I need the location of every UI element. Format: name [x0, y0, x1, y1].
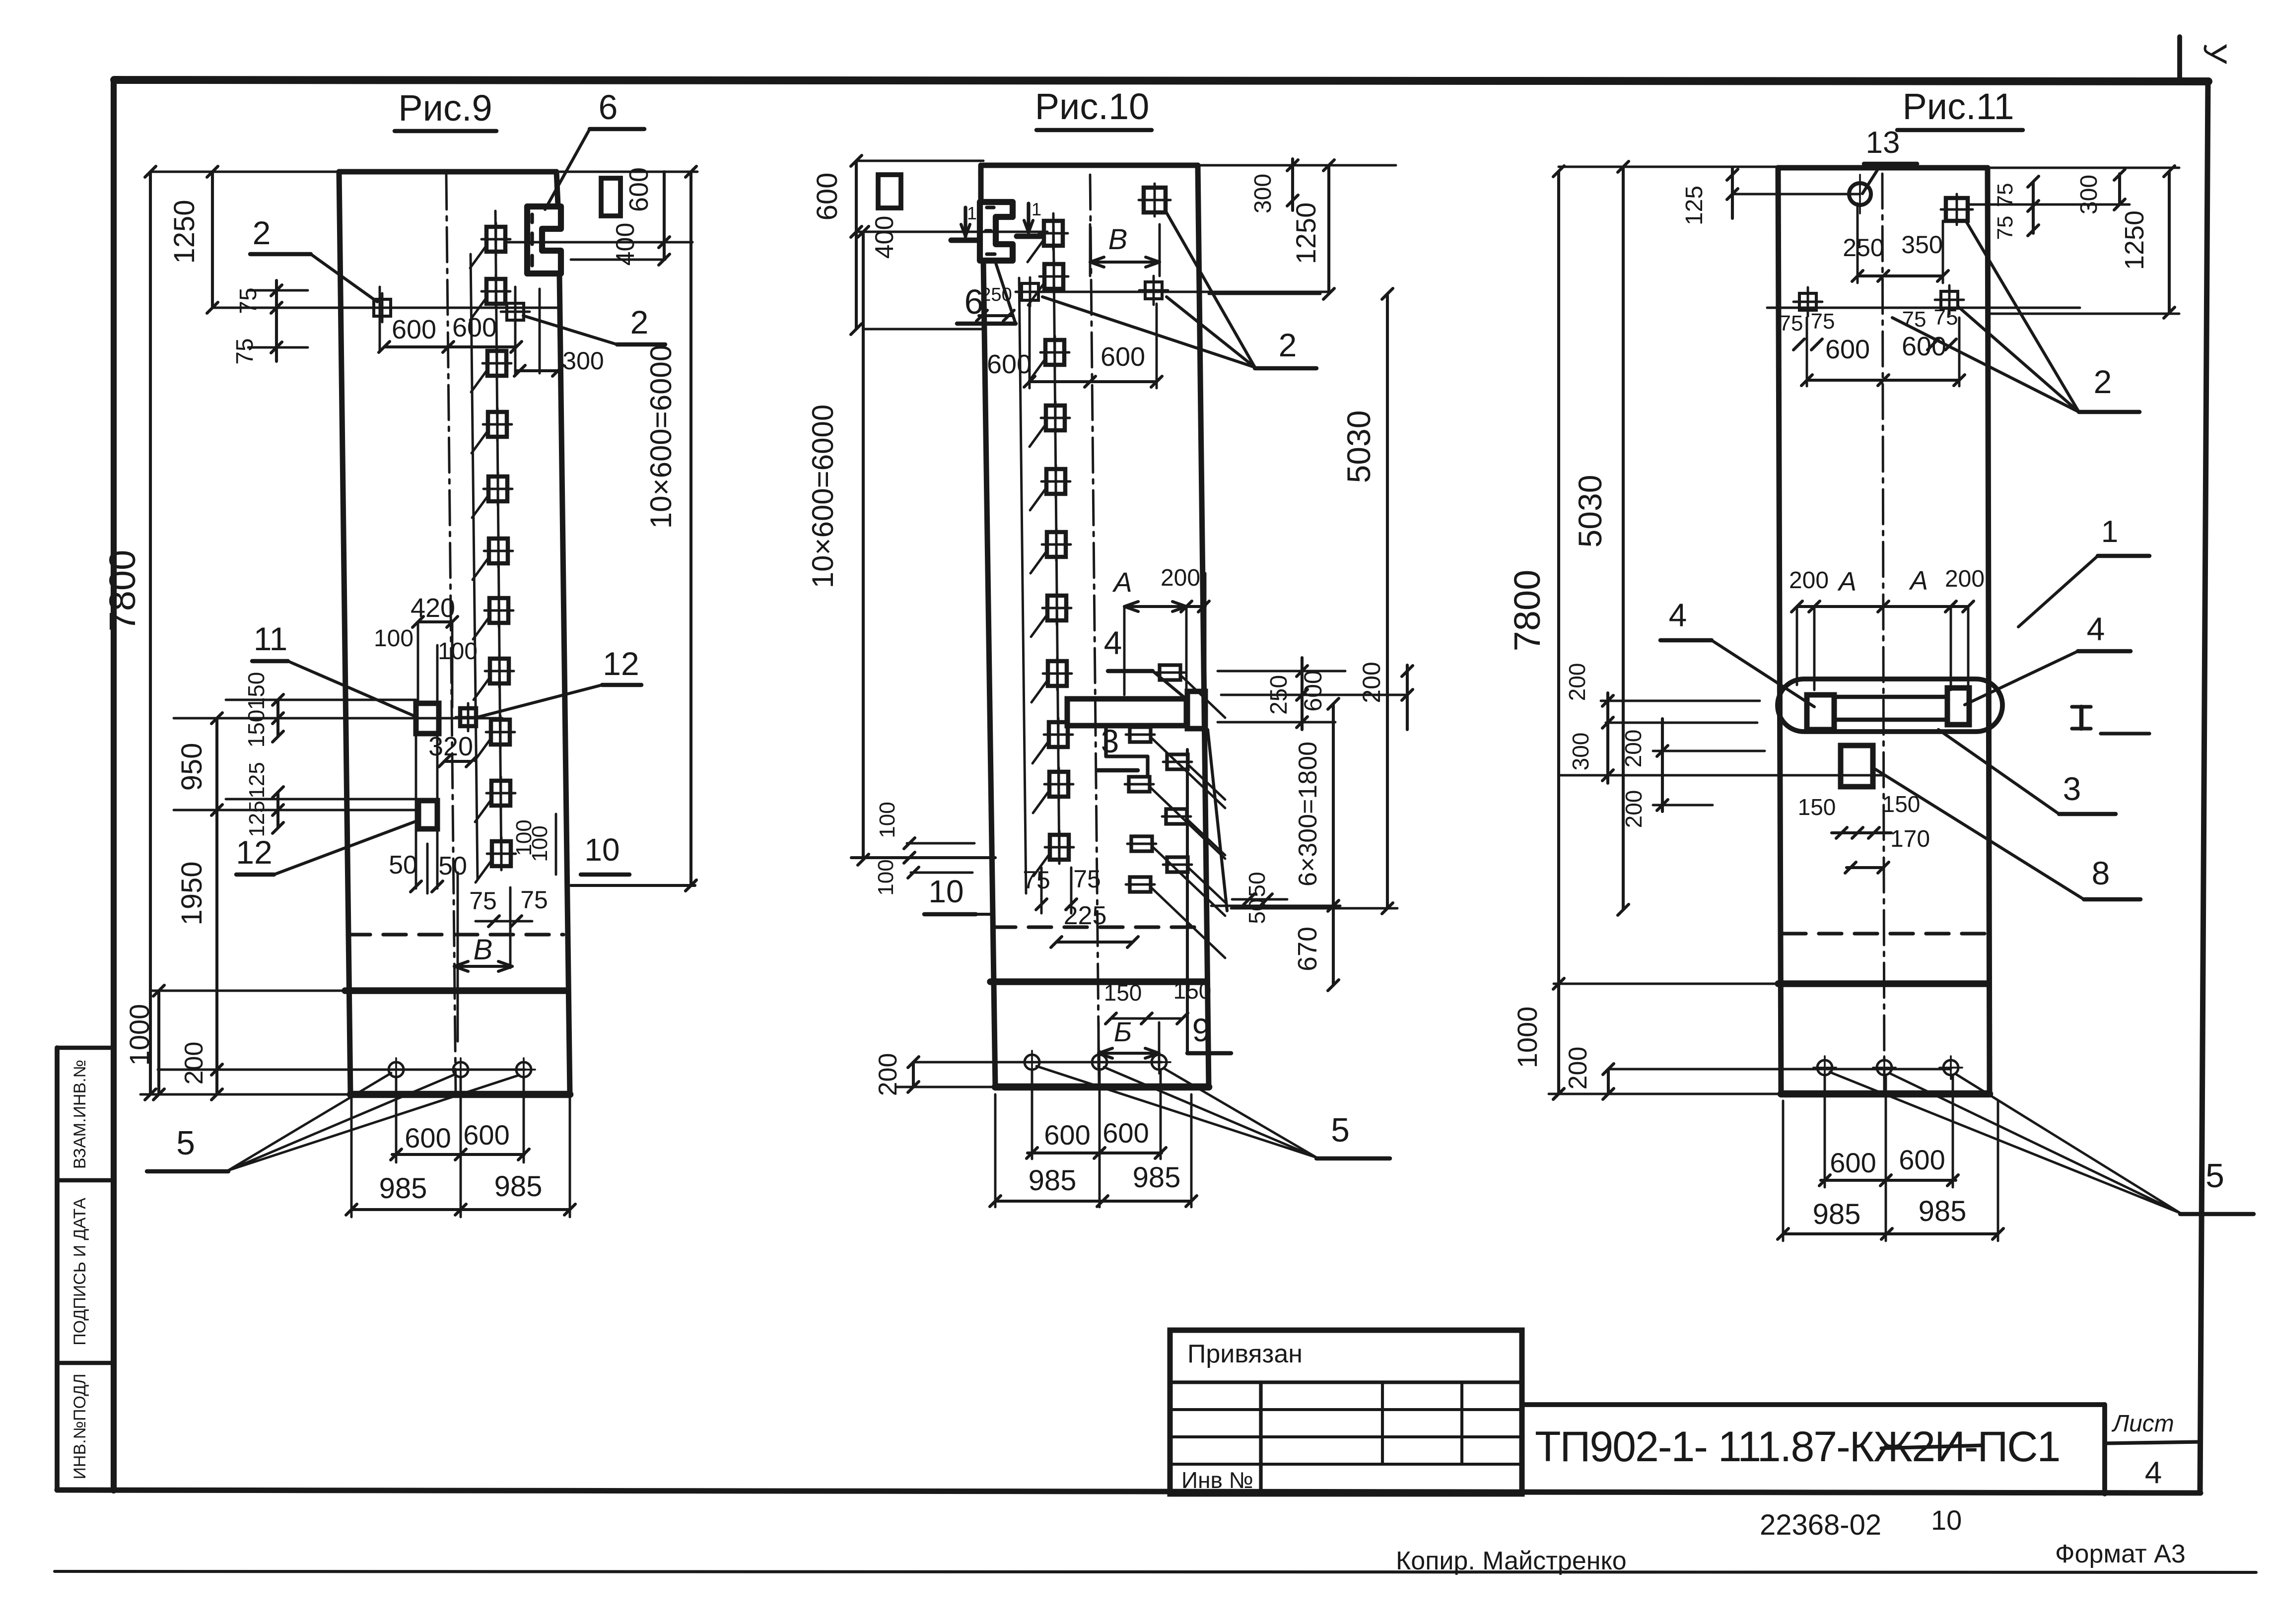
svg-text:А: А	[1837, 567, 1857, 597]
fig11 anchor embed left	[1793, 287, 1822, 316]
svg-text:4: 4	[2087, 610, 2105, 647]
svg-text:А: А	[1112, 566, 1132, 598]
fig11 dim 1250 rot right	[1990, 166, 2179, 318]
svg-text:ИНВ.№ПОДЛ: ИНВ.№ПОДЛ	[70, 1373, 89, 1479]
fig11 anchor circle 1	[1813, 1056, 1836, 1079]
svg-text:200: 200	[1564, 663, 1590, 701]
svg-text:50: 50	[389, 851, 417, 880]
fig11 callout 4 right	[1965, 610, 2131, 705]
fig9 dim 100 100 rot	[512, 814, 556, 875]
svg-text:200: 200	[874, 1053, 902, 1096]
fig11 stadium outline	[1778, 679, 2002, 732]
svg-text:200: 200	[1358, 662, 1385, 703]
fig10 panel dashed line	[993, 925, 1204, 929]
fig10 embed fan leaders	[1151, 677, 1225, 958]
svg-text:10×600=6000: 10×600=6000	[644, 345, 678, 529]
fig11 dim 7800	[1507, 166, 1564, 1099]
svg-text:5030: 5030	[1340, 410, 1377, 483]
corner mark letter U	[2197, 43, 2234, 65]
svg-text:Инв №: Инв №	[1181, 1467, 1253, 1493]
fig10 panel divider thick	[990, 978, 1206, 985]
svg-text:Формат А3: Формат А3	[2055, 1540, 2186, 1568]
svg-text:75: 75	[232, 338, 258, 364]
svg-text:Б: Б	[1114, 1016, 1132, 1047]
svg-text:2: 2	[1279, 327, 1297, 363]
sheet bottom rule line	[55, 1571, 2256, 1572]
fig11 stadium bar right	[1947, 688, 1969, 725]
svg-text:985: 985	[1133, 1161, 1181, 1194]
svg-text:1: 1	[2101, 515, 2118, 549]
fig10 dim 150 150	[1104, 978, 1212, 1024]
fig11 callout 5	[1830, 1072, 2254, 1214]
fig11 ext top	[1559, 166, 1778, 168]
fig11 bottom vert exts	[1783, 1076, 1998, 1241]
fig9 embed square 12	[456, 703, 481, 731]
svg-text:600: 600	[1902, 332, 1946, 361]
svg-text:985: 985	[1813, 1198, 1861, 1230]
fig9 dim 300	[514, 289, 604, 376]
format text	[2055, 1540, 2186, 1568]
svg-text:6×300=1800: 6×300=1800	[1294, 742, 1322, 886]
sidebar divider 3	[57, 1361, 114, 1365]
fig10 dim A line	[1124, 573, 1209, 730]
svg-text:10: 10	[584, 832, 619, 868]
svg-text:2: 2	[630, 304, 649, 340]
fig9 callout 10	[571, 832, 696, 891]
svg-text:5: 5	[2205, 1157, 2224, 1195]
fig10 hatch boundary	[1208, 730, 1227, 911]
fig9 anchor circle 2	[449, 1058, 472, 1081]
fig10 embed leader ticks	[1028, 240, 1049, 876]
fig10 panel bottom thick	[995, 1083, 1209, 1091]
svg-text:200: 200	[180, 1042, 208, 1085]
svg-text:1250: 1250	[168, 200, 201, 264]
fig10 callout 2	[1042, 211, 1316, 368]
fig9 callout 12	[478, 645, 641, 717]
fig11 stadium bar lines	[1834, 697, 1947, 720]
svg-text:1000: 1000	[124, 1004, 155, 1066]
svg-text:У: У	[2197, 43, 2234, 65]
svg-text:670: 670	[1293, 927, 1322, 971]
fig10 section B bottom	[1099, 1016, 1159, 1067]
svg-text:В: В	[1108, 223, 1128, 256]
fig9 callout 11	[252, 620, 416, 717]
border left line	[111, 79, 117, 1490]
fig11 dim 600 600 mid	[1801, 318, 1965, 386]
titleblock strip text	[1535, 1423, 2060, 1471]
fig9 embed rect 12b	[418, 801, 437, 829]
svg-text:200: 200	[1945, 566, 1985, 592]
fig10 dim 1250 rot right	[1290, 160, 1334, 299]
fig10 dim 50 50 rot	[1232, 872, 1287, 924]
fig10 small embeds right	[1125, 665, 1192, 892]
fig9 panel dashed line	[347, 933, 563, 936]
fig10 section mark 1 left	[951, 203, 980, 240]
svg-text:985: 985	[1919, 1195, 1967, 1227]
svg-text:300: 300	[1568, 733, 1593, 771]
fig9 section B	[454, 873, 512, 1041]
fig11 panel right edge	[1988, 168, 1990, 1094]
fig11 title	[1897, 86, 2023, 130]
fig9 dim 985 985	[346, 1170, 575, 1215]
fig10 dim 6x300	[1294, 698, 1339, 991]
svg-text:150: 150	[1882, 791, 1921, 817]
titleblock row lines	[1170, 1382, 1522, 1464]
fig10 ext 1728 long	[851, 852, 995, 863]
fig11 left cluster dims	[1602, 693, 1668, 812]
svg-text:5: 5	[1331, 1111, 1350, 1149]
fig10 dim 200 rot right	[1358, 662, 1385, 703]
fig9 callout 2 right	[523, 304, 665, 344]
svg-text:600: 600	[811, 173, 843, 221]
svg-text:12: 12	[236, 834, 272, 871]
fig11 dim 300 rot right	[2076, 169, 2125, 214]
svg-text:Привязан: Привязан	[1187, 1340, 1303, 1368]
fig10 dim 200 vline right	[1402, 665, 1413, 730]
fig9 ext line bottom	[140, 1093, 350, 1096]
fig10 dim 985 985	[990, 1161, 1197, 1207]
fig11 label I	[2072, 707, 2149, 734]
fig10 bottom vert exts	[995, 1070, 1191, 1207]
fig10 embed column line	[1053, 213, 1059, 864]
svg-text:75: 75	[1073, 865, 1101, 893]
fig11 callout 3	[1938, 730, 2116, 814]
svg-text:2: 2	[253, 214, 271, 251]
svg-text:Рис.9: Рис.9	[398, 87, 492, 129]
fig9 dim 10x600	[560, 166, 697, 891]
svg-text:50: 50	[1244, 872, 1270, 897]
fig9 embed plates column	[482, 223, 516, 870]
fig10 anchor embed right	[1139, 276, 1168, 305]
svg-text:1950: 1950	[176, 861, 208, 925]
svg-text:200: 200	[1621, 790, 1647, 828]
fig9 dim 420	[411, 593, 458, 888]
svg-text:1250: 1250	[2120, 210, 2149, 270]
fig9 ext line footer top	[150, 990, 345, 992]
svg-text:200: 200	[1789, 567, 1829, 594]
fig9 dim line right short	[659, 172, 670, 265]
fig10 dim 75 75 bottom	[1023, 865, 1101, 913]
svg-text:5: 5	[176, 1124, 195, 1162]
fig10 panel left edge upper	[978, 165, 984, 202]
svg-text:Лист: Лист	[2111, 1411, 2174, 1437]
fig10 dim 5030	[1231, 288, 1397, 914]
svg-text:200: 200	[1564, 1047, 1592, 1090]
fig10 ext 1400	[1221, 694, 1405, 696]
svg-text:В: В	[474, 934, 493, 966]
svg-text:400: 400	[870, 216, 899, 259]
svg-text:125: 125	[245, 762, 269, 798]
svg-text:8: 8	[2092, 855, 2110, 891]
border right line	[2200, 81, 2208, 1493]
fig10 section B top	[1090, 223, 1160, 276]
fig11 callout 1	[2018, 515, 2149, 627]
fig10 callout 4	[1104, 624, 1187, 700]
fig10 dim 300 rot right	[1250, 159, 1298, 213]
fig9 dim 600 600 top	[379, 313, 522, 352]
fig11 anchor circle 3	[1939, 1056, 1962, 1079]
fig9 dim 1000 bottom	[124, 985, 164, 1100]
fig10 ext 324	[856, 160, 983, 162]
titleblock list box	[2105, 1405, 2201, 1494]
fig10 ext 1455	[1218, 721, 1335, 724]
svg-text:10: 10	[1931, 1504, 1962, 1536]
titleblock privyazan text	[1187, 1340, 1303, 1368]
svg-text:600: 600	[405, 1122, 451, 1153]
fig10 panel right edge	[1198, 165, 1209, 1087]
fig10 ext 1352	[1218, 670, 1345, 673]
svg-text:Копир. Майстренко: Копир. Майстренко	[1396, 1547, 1627, 1575]
fig10 dim 200 left bottom	[874, 1053, 919, 1096]
svg-text:4: 4	[1669, 597, 1687, 633]
svg-text:ПОДПИСЬ И ДАТА: ПОДПИСЬ И ДАТА	[70, 1198, 89, 1346]
svg-text:125: 125	[1681, 186, 1708, 225]
fig10 embed plates column	[1039, 217, 1074, 864]
fig9 dim 150 150	[243, 672, 283, 748]
fig10 anchor embed left	[1016, 277, 1044, 306]
fig9 panel top edge	[339, 169, 556, 175]
svg-text:300: 300	[562, 347, 604, 375]
svg-text:3: 3	[1101, 723, 1119, 759]
fig9 embed column line	[495, 211, 501, 868]
fig10 dim line topleft	[851, 155, 862, 335]
fig11 dim 600 600 bottom	[1819, 1144, 1958, 1186]
svg-text:1000: 1000	[1512, 1007, 1543, 1069]
svg-text:2: 2	[2094, 363, 2112, 400]
fig9 bottom vert exts	[351, 1078, 570, 1217]
fig9 anchor embed left	[368, 293, 397, 322]
svg-text:200: 200	[1620, 730, 1646, 768]
svg-text:300: 300	[1250, 174, 1276, 213]
fig11 anchor circle 2	[1873, 1056, 1896, 1079]
fig10 centerline	[1090, 175, 1099, 1084]
fig10 anchor circle 3	[1148, 1051, 1170, 1074]
fig9 dim 320	[428, 732, 477, 767]
fig11 panel bottom thick	[1781, 1090, 1990, 1098]
svg-text:600: 600	[1830, 1147, 1876, 1178]
fig11 dim 125 rot	[1681, 168, 1860, 225]
svg-text:985: 985	[1029, 1164, 1077, 1197]
fig9 ext line 488	[506, 241, 692, 244]
titleblock sheet number	[2145, 1456, 2162, 1490]
svg-text:100: 100	[528, 825, 552, 862]
titleblock list text	[2111, 1411, 2174, 1437]
svg-text:75: 75	[1934, 305, 1958, 330]
svg-text:600: 600	[1044, 1119, 1090, 1150]
sidebar label podpis	[70, 1198, 89, 1346]
fig10 dim 600 600 bottom	[1027, 1117, 1166, 1158]
svg-text:75: 75	[520, 886, 548, 914]
fig9 helper line	[471, 254, 478, 880]
svg-text:3: 3	[2063, 770, 2081, 807]
svg-text:Рис.11: Рис.11	[1902, 86, 2014, 127]
svg-text:170: 170	[1890, 826, 1930, 852]
fig10 callout 3	[1097, 723, 1148, 775]
fig11 callout 2	[1892, 222, 2139, 412]
fig11 callout 13	[1862, 126, 1917, 194]
svg-text:4: 4	[2145, 1456, 2162, 1490]
fig10 dim 600 600	[987, 304, 1162, 388]
svg-text:125: 125	[245, 801, 269, 837]
sidebar label inv	[70, 1373, 89, 1479]
fig11 centerline	[1882, 174, 1884, 1092]
fig9 ext line top	[150, 171, 339, 173]
svg-text:22368-02: 22368-02	[1760, 1509, 1881, 1541]
titleblock pривязан box	[1170, 1330, 1522, 1494]
fig11 dim 1000 bottom	[1512, 978, 1564, 1099]
fig11 left cluster labels	[1564, 663, 1647, 828]
fig9 dim 600 600 bottom	[391, 1119, 529, 1160]
sidebar left edge	[55, 1048, 60, 1490]
fig10 plate 4 bar	[1067, 691, 1205, 729]
svg-text:300: 300	[2076, 175, 2102, 214]
svg-text:50: 50	[438, 852, 467, 880]
svg-text:5030: 5030	[1572, 475, 1608, 548]
sidebar top divider	[57, 1046, 114, 1050]
fig10 dim 600 rot top	[811, 173, 843, 221]
svg-text:600: 600	[1825, 335, 1870, 364]
fig10 anchor circle 2	[1088, 1051, 1111, 1074]
fig9 vert ext right cross	[514, 287, 517, 375]
fig10 ext 467	[856, 231, 1047, 233]
fig10 section mark 1 right	[1017, 199, 1041, 236]
svg-text:10: 10	[928, 874, 963, 909]
svg-text:75: 75	[469, 887, 497, 915]
fig9 dim 75 75 top	[232, 280, 308, 365]
fig10 ext 663	[864, 328, 983, 331]
svg-text:985: 985	[379, 1172, 427, 1205]
svg-text:225: 225	[1064, 901, 1107, 930]
fig10 ext 1758	[908, 867, 972, 878]
border bottom line	[57, 1490, 2201, 1493]
fig9 dim 200 bottom	[180, 1042, 208, 1085]
svg-text:150: 150	[1798, 794, 1836, 820]
fig10 panel top edge	[983, 163, 1198, 168]
svg-text:600: 600	[987, 349, 1032, 379]
fig11 dim 985 985	[1778, 1195, 2003, 1239]
fig11 panel dashed line	[1783, 932, 1986, 935]
fig9 anchor embed right	[501, 297, 530, 326]
fig11 ext circles	[1608, 1068, 1951, 1071]
fig9 panel right edge lower	[559, 274, 570, 1094]
fig11 embed square 8	[1841, 745, 1873, 787]
fig9 dim 950 1950	[176, 713, 222, 1100]
fig10 callout 5	[1036, 1066, 1390, 1158]
svg-text:150: 150	[1104, 980, 1142, 1006]
svg-text:13: 13	[1866, 126, 1900, 160]
fig10 callout 10	[924, 874, 994, 914]
fig9 ext line 1632	[174, 809, 418, 812]
svg-text:600: 600	[392, 315, 436, 344]
fig11 panel top edge	[1778, 165, 1988, 171]
svg-text:75: 75	[1779, 311, 1803, 336]
fig10 dim 10x600	[806, 226, 869, 865]
fig10 top right embed	[1139, 184, 1170, 216]
svg-text:75: 75	[1811, 309, 1835, 334]
fig9 dim 100 right	[438, 638, 478, 665]
fig11 dim 75 pairs mid	[1779, 305, 1958, 350]
svg-text:7800: 7800	[1507, 570, 1548, 652]
corner mark tick top right	[2177, 37, 2182, 80]
fig9 dim 400 right rot	[611, 223, 640, 266]
svg-text:1250: 1250	[1290, 203, 1321, 265]
fig10 embed side rect	[878, 175, 901, 208]
fig11 callout 4 left	[1660, 597, 1814, 707]
svg-text:10×600=6000: 10×600=6000	[806, 405, 839, 588]
svg-text:1: 1	[967, 203, 977, 223]
fig9 dim line 1250	[168, 166, 218, 313]
fig10 row line 588	[1021, 291, 1329, 293]
fig11 anchor embed right	[1935, 285, 1964, 314]
svg-text:А: А	[1909, 566, 1928, 596]
fig9 ext line 1410	[226, 699, 416, 701]
svg-text:9: 9	[1192, 1012, 1211, 1048]
svg-text:250: 250	[1843, 234, 1884, 262]
fig11 dim 250 350	[1843, 203, 1948, 283]
fig11 dim 200 bottom	[1564, 1047, 1614, 1099]
fig9 ext line 1610	[226, 798, 418, 801]
fig10 dim mid right vline	[1297, 658, 1308, 730]
svg-text:350: 350	[1901, 231, 1942, 259]
fig9 embed side rect	[601, 178, 620, 216]
fig11 callout 8	[1874, 768, 2140, 899]
fig9 centerline	[446, 175, 456, 1092]
fig9 dim 75 75 bottom	[469, 886, 548, 927]
fig9 dim 50 50	[389, 844, 467, 893]
svg-text:250: 250	[980, 284, 1012, 305]
fig11 anchor circle top	[1849, 175, 1871, 213]
fig11 dim 150 150 170	[1798, 791, 1930, 873]
fig10 dim 225	[1051, 901, 1138, 947]
fig11 stadium bar left	[1807, 695, 1834, 730]
fig9 callout 5	[147, 1073, 519, 1171]
svg-text:200: 200	[1161, 565, 1200, 591]
fig9 panel bottom thick	[350, 1091, 570, 1098]
fig11 ext 1982	[1554, 983, 1778, 985]
svg-text:75: 75	[1023, 866, 1050, 894]
fig10 ext bottom	[896, 1086, 995, 1088]
svg-text:600: 600	[624, 167, 654, 212]
fig11 dim 75 75 rot right	[1968, 176, 2130, 240]
fig9 panel left edge	[339, 172, 350, 1094]
fig10 anchor circle 1	[1021, 1051, 1043, 1074]
fig10 title	[1035, 86, 1152, 130]
svg-text:150: 150	[243, 672, 269, 710]
fig10 dim 250 rot	[1266, 675, 1292, 715]
doc number text	[1760, 1504, 1962, 1541]
svg-text:6: 6	[599, 88, 618, 127]
fig9 ext line row1250	[212, 307, 560, 309]
fig10 panel left edge lower	[983, 261, 995, 1087]
fig11 dim A line	[1791, 601, 1974, 690]
fig10 ext circles	[913, 1061, 1162, 1064]
fig9 embed leader ticks	[470, 246, 491, 882]
fig9 ext line 1447	[174, 717, 502, 720]
svg-text:600: 600	[463, 1119, 509, 1150]
fig9 ext line circles	[158, 1069, 525, 1071]
fig10 callout 9	[1187, 749, 1231, 1053]
fig10 ext right 592	[1209, 293, 1320, 295]
svg-text:100: 100	[438, 638, 478, 665]
svg-text:12: 12	[603, 645, 639, 682]
fig11 dim 5030	[1572, 161, 1629, 915]
svg-text:150: 150	[243, 710, 269, 748]
fig9 dim 125 125	[245, 762, 283, 837]
fig10 ext right top	[1198, 164, 1396, 167]
fig9 dim 600 right rot	[624, 167, 654, 212]
fig9 anchor circle 1	[385, 1058, 408, 1081]
sidebar label vzam	[70, 1060, 89, 1169]
